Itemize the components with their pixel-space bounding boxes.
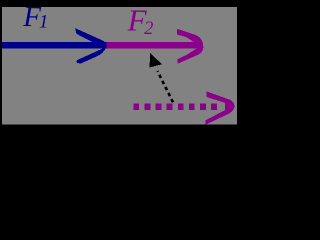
arrowhead dashed-F2 lower barb [205,106,235,125]
arrowhead dashed-F2 upper barb [206,91,234,106]
border frame overlay: right edge [237,0,243,128]
border frame overlay: bottom edge [0,124,243,128]
border frame overlay: top edge [0,0,243,7]
wire: black dashed translation line [158,71,174,102]
dashed translated copy of F2 (magenta dotted vector) [133,91,234,125]
wire: dotted shaft dots [133,104,139,110]
arrowhead of translation line (black) [150,53,163,67]
vector F1 (blue) [2,28,107,63]
arrowhead F2 lower barb [177,46,203,64]
wire: F2 shaft [107,42,200,48]
border frame background [0,0,243,128]
gray canvas [2,7,237,124]
arrowhead F2 upper barb [177,29,203,46]
border frame overlay: left edge [0,0,2,128]
arrowhead F2 tip filler [197,39,204,53]
arrowhead F1 tip filler [103,42,107,48]
arrowhead dashed-F2 tip filler [225,100,235,113]
arrowhead F1 lower barb [76,45,107,63]
wire: F1 shaft [2,42,107,48]
svg-text:2: 2 [144,19,153,39]
svg-text:1: 1 [39,13,48,33]
arrowhead F1 upper barb [75,28,107,44]
vector F2 (magenta) [107,29,204,64]
